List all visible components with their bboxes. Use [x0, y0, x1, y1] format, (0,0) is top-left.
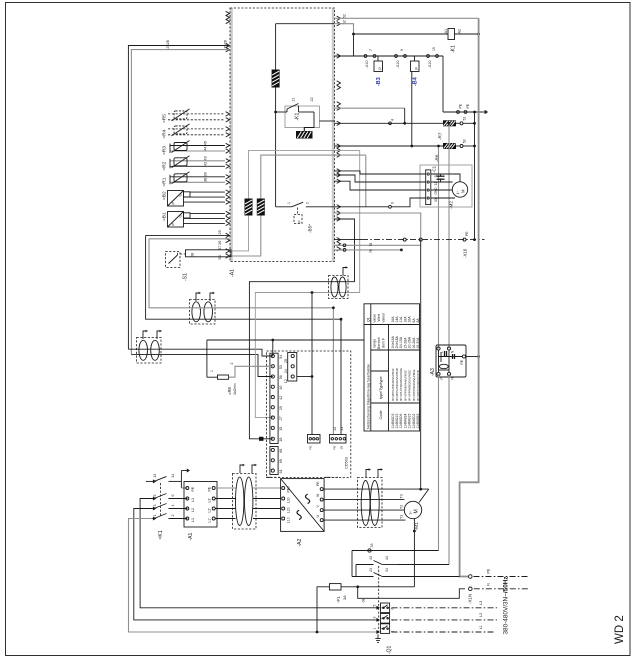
junction block on wire to terminal 18 [259, 437, 264, 441]
svg-text:=K1: =K1 [158, 530, 164, 539]
label -A3 [430, 368, 436, 376]
PE bus terminal -X1N:PE [469, 575, 473, 579]
svg-text:=R4: =R4 [162, 129, 168, 138]
svg-text:-C1: -C1 [432, 165, 437, 173]
svg-text:=R2: =R2 [162, 161, 168, 170]
svg-text:12: 12 [284, 379, 288, 383]
label -K1 (contact) [295, 113, 301, 121]
svg-text:13: 13 [153, 474, 157, 478]
svg-text:26: 26 [218, 241, 222, 245]
svg-text:380-480V/3N~/50Hz: 380-480V/3N~/50Hz [503, 576, 510, 634]
label -X10 (PE row) [463, 231, 470, 258]
capacitor -C1 [437, 174, 445, 182]
svg-text:value: value [373, 314, 377, 323]
wire F2 to strip terminal 54 [128, 349, 272, 356]
filter -A1 labels left [191, 486, 195, 522]
N wire jog to -X1N [358, 587, 465, 599]
terminal 54 riser [271, 339, 274, 356]
svg-text:25: 25 [218, 230, 222, 234]
wire 26 (top-left, black) [128, 46, 229, 350]
terminal -X1N:N [469, 587, 473, 591]
label -Q1 [387, 645, 393, 654]
mains L1 dash-dot [392, 625, 495, 632]
svg-text:25: 25 [224, 44, 228, 48]
svg-text:5: 5 [153, 495, 157, 497]
aux contact 43/44 wire [356, 561, 449, 577]
svg-text:42: 42 [204, 162, 208, 166]
fan feed wire 3 [334, 181, 426, 190]
svg-text:GND: GND [434, 187, 438, 195]
pressure switch -B3 [374, 56, 383, 72]
svg-text:39: 39 [204, 172, 208, 176]
svg-text:4: 4 [391, 119, 395, 121]
service switch -S1 contact [169, 252, 178, 264]
svg-text:PE0: PE0 [287, 486, 291, 493]
filter -A1 terminals [186, 487, 215, 521]
drive -A2 box [281, 479, 325, 532]
ferrite to drive wires [253, 488, 281, 519]
svg-text:44: 44 [204, 147, 208, 151]
A3 supply wire 1 (grey) [437, 145, 440, 349]
mains rating label 380-480V/3N~/50Hz [503, 576, 510, 634]
svg-text:52: 52 [343, 14, 347, 18]
svg-text:L2: L2 [191, 508, 195, 512]
control terminal strip upper (54..18) [270, 353, 283, 443]
Q1 pole wire arrowhead [376, 618, 380, 622]
PE bus (right side) [460, 18, 479, 576]
svg-text:27: 27 [279, 416, 283, 420]
svg-text:26: 26 [166, 40, 170, 44]
motor ferrite rings [361, 481, 379, 526]
thermistor -R3 symbol [172, 141, 190, 153]
label -A2 [297, 539, 303, 547]
svg-text:CD503: CD503 [345, 457, 349, 469]
filter -A1 box (power) [184, 482, 217, 528]
svg-text:53: 53 [279, 365, 283, 369]
svg-text:26: 26 [224, 40, 228, 44]
junction node (K1 branch) [274, 111, 277, 114]
svg-text:-A3: -A3 [430, 368, 436, 376]
fuse output wire [341, 585, 414, 588]
svg-text:33: 33 [370, 544, 374, 548]
svg-text:76: 76 [369, 249, 373, 253]
wire 52b to coil branch [334, 24, 354, 34]
motor -M1 [404, 501, 421, 518]
A3 supply wire 2 (grey) [448, 122, 451, 349]
svg-text:42: 42 [279, 396, 283, 400]
svg-text:24: 24 [284, 369, 288, 373]
svg-text:15: 15 [432, 47, 436, 51]
table header value [373, 312, 386, 323]
fan feed wire 2 [334, 175, 426, 182]
svg-text:=R8: =R8 [227, 387, 232, 395]
fuse selection table grid [364, 304, 420, 431]
internal wire to -K1 contact (vertical) [275, 24, 277, 207]
terminal -X10:9 circles [395, 55, 407, 58]
connector group area [0, 0, 1, 1]
svg-text:M: M [461, 189, 466, 193]
svg-text:L1: L1 [191, 518, 195, 522]
ferrite F5 ground arrow [343, 266, 348, 275]
relay coil -K1 [448, 29, 455, 40]
svg-text:T1: T1 [400, 515, 404, 519]
wire F1 to plug (black) [146, 235, 341, 434]
svg-text:3: 3 [153, 505, 157, 507]
svg-text:L3': L3' [208, 498, 212, 503]
resistor -R7 [443, 120, 456, 126]
svg-text:1: 1 [373, 628, 377, 630]
svg-text:=R1: =R1 [162, 177, 168, 186]
svg-text:68: 68 [279, 449, 283, 453]
table header Code [379, 410, 383, 419]
aux grey row b [334, 243, 403, 253]
svg-text:-X10: -X10 [365, 60, 369, 68]
junction (coil branch) [352, 33, 355, 36]
fan feed wire 1 [334, 171, 426, 174]
wire -X10:9 to R7 [334, 108, 406, 125]
table header Q1 [367, 317, 371, 322]
svg-text:PE: PE [459, 103, 463, 108]
svg-text:L3: L3 [191, 498, 195, 502]
fuse -F1 feed [316, 587, 330, 634]
svg-text:54: 54 [279, 355, 283, 359]
shield wire pair upper (black) [146, 234, 230, 236]
svg-text:P: P [440, 377, 444, 379]
aux net 33 wire [352, 544, 439, 553]
contactor -K1 terminal labels [153, 474, 175, 517]
relay contact -K1 wires [276, 104, 334, 132]
svg-text:23: 23 [369, 568, 373, 572]
svg-text:15: 15 [279, 427, 283, 431]
mains PE dash-dot [474, 568, 530, 576]
thermistor -R4 label [162, 129, 168, 138]
label 08 (N wire) [362, 599, 366, 603]
svg-text:-X10: -X10 [428, 60, 432, 68]
svg-text:-M1: -M1 [414, 522, 420, 531]
terminal labels 26/25 (top-left wires) [166, 40, 228, 49]
ferrite F1 shield-ground arrows [196, 292, 215, 301]
resistor -R6 [443, 143, 456, 149]
main switch -Q1 pole 2 [381, 614, 390, 624]
svg-text:PE: PE [460, 359, 464, 364]
svg-text:-A1: -A1 [188, 533, 194, 541]
svg-text:1: 1 [153, 515, 157, 517]
fan connector strip [426, 170, 431, 205]
svg-text:PE: PE [191, 486, 195, 491]
thermistor return net [249, 219, 354, 439]
shield clamp W1 [245, 199, 253, 216]
aux contact 23/24 wire [352, 573, 460, 577]
coil terminal labels A1/A2 [444, 29, 462, 34]
svg-text:52: 52 [463, 117, 467, 121]
drive -A2 converter symbol [281, 479, 325, 532]
thermistor -R1 symbol [172, 172, 190, 184]
thermistor -R5 label [162, 114, 168, 123]
svg-text:T3: T3 [400, 494, 404, 498]
table data column type [391, 368, 420, 401]
connector plug X (3-pin) [308, 435, 321, 444]
fuse -F1 body [330, 584, 342, 590]
svg-text:43: 43 [204, 156, 208, 160]
main switch -Q1 pole 3 [381, 624, 390, 634]
X10 PE riser [420, 240, 422, 490]
shield wire pair lower (grey) [149, 238, 230, 240]
label -K1 (coil) [451, 45, 457, 53]
enclosure dash-dot stubs [266, 476, 338, 478]
fuse -F1 labels [336, 595, 347, 603]
relay contact -K1 terminal labels [292, 97, 315, 101]
label -R7 [438, 132, 443, 140]
mains wire L3 (to K1) [129, 519, 378, 633]
svg-text:5: 5 [373, 605, 377, 607]
svg-text:6: 6 [171, 495, 175, 497]
sheet title WD 2 [614, 615, 626, 644]
svg-text:-Q1: -Q1 [387, 645, 393, 654]
terminal labels 55-58 (bottom-left group) [218, 246, 222, 260]
mains N dash-dot [474, 583, 529, 589]
internal wire stub (py23.7) [276, 23, 334, 25]
Q1 ground symbol [375, 635, 380, 643]
svg-text:08: 08 [362, 599, 366, 603]
aux riser [351, 551, 353, 577]
main switch -Q1 pole 1 [381, 603, 390, 613]
wire to X10 PE row [334, 213, 421, 240]
svg-text:7: 7 [369, 49, 373, 51]
shield clamp (below K1 contact) [296, 131, 313, 139]
junction (row309 plug) [332, 306, 335, 309]
svg-text:56: 56 [279, 375, 283, 379]
motor aux riser [413, 519, 416, 587]
svg-text:1N: 1N [340, 446, 344, 450]
terminal -X10:15 circles [427, 55, 439, 58]
Q1 pole wire arrowhead [376, 606, 380, 610]
service switch -S1 dashed box [166, 252, 181, 268]
svg-text:08: 08 [191, 253, 195, 257]
thermistor -R4 symbol [172, 124, 190, 136]
transducer -B1 wires [184, 213, 225, 223]
filter -A3 box [436, 345, 466, 377]
thermistor -R5 wires (dashed) [168, 114, 225, 120]
label -M1 [414, 522, 420, 531]
svg-text:0P=0PPP00200VLPX1B: 0P=0PPP00200VLPX1B [416, 370, 420, 401]
svg-text:-S1: -S1 [183, 273, 189, 281]
mains wire L1 (to K1) [140, 499, 377, 608]
svg-text:45: 45 [204, 141, 208, 145]
svg-text:78: 78 [369, 243, 373, 247]
svg-text:16-30A: 16-30A [416, 337, 420, 349]
svg-text:L30: L30 [287, 497, 291, 503]
thermistor -R1 label [162, 177, 168, 186]
label CD503 [345, 457, 349, 469]
svg-text:dom.F: dom.F [382, 337, 386, 348]
svg-text:=B2: =B2 [162, 191, 168, 200]
svg-text:L: L [440, 351, 444, 353]
svg-text:34: 34 [385, 568, 389, 572]
PE link wire (py112) [443, 56, 482, 113]
pressure switch -B4 [411, 56, 420, 72]
board left-edge terminal arrows (bottom group) [226, 233, 230, 258]
svg-text:U: U [179, 215, 183, 218]
heater wire (R6 row) [334, 145, 443, 147]
wire -S1 to connector (dashed) [180, 253, 186, 255]
connector bar (to -S1) [186, 250, 232, 257]
svg-text:Code: Code [379, 410, 383, 419]
svg-text:=R5: =R5 [162, 114, 168, 123]
svg-text:25: 25 [284, 359, 288, 363]
wire 25 (top-left, grey) [131, 50, 229, 355]
wire F2 to strip terminal 56 [131, 355, 272, 377]
ferrite sleeve F2 dashed box [137, 338, 162, 364]
pressure transducer -B2 label [162, 191, 168, 200]
thermistor -R1 wires [170, 175, 225, 185]
terminal circle 4 [389, 119, 395, 125]
svg-text:PE: PE [487, 568, 491, 573]
Q1 pole wire arrowhead [376, 630, 380, 634]
svg-text:43: 43 [369, 556, 373, 560]
PE labels (link row) [459, 103, 471, 108]
drive -A2 input terminals [282, 486, 291, 523]
svg-text:Q1: Q1 [367, 317, 371, 322]
filter -A1 labels right [208, 486, 212, 522]
power ferrite rings [236, 477, 253, 525]
wire numbers 45/44 (R3) [204, 141, 208, 151]
svg-text:WD 2: WD 2 [614, 615, 626, 644]
svg-text:L10: L10 [287, 517, 291, 523]
svg-text:1: 1 [210, 370, 214, 372]
svg-text:-F1: -F1 [336, 596, 341, 603]
controller board -A1 dashed outline [230, 8, 335, 262]
svg-text:3A: 3A [343, 595, 347, 600]
thermistor -R2 wires [170, 159, 225, 169]
svg-text:p: p [414, 67, 418, 69]
shield clamp W2 [257, 199, 265, 216]
svg-text:L1: L1 [479, 625, 483, 629]
-A3 output wire 1 (grey) [438, 374, 440, 551]
table title (time-lag fuse) [367, 364, 371, 429]
svg-text:38: 38 [204, 178, 208, 182]
PE riser with continuation arrow [181, 469, 190, 489]
svg-text:-M2: -M2 [449, 201, 454, 209]
thermistor -R5 symbol [172, 109, 190, 121]
svg-text:type/Typ/type: type/Typ/type [379, 376, 383, 399]
svg-text:Wert: Wert [377, 314, 381, 322]
svg-text:1: 1 [287, 202, 291, 204]
label -B3 [376, 77, 382, 86]
svg-text:9: 9 [400, 49, 404, 51]
R8 feed riser [207, 340, 218, 377]
thermistor -R2 symbol [172, 156, 190, 168]
wire F1 to plug (grey) [149, 239, 333, 435]
svg-text:-K1: -K1 [451, 45, 457, 53]
connector plug Y (4-pin) [330, 435, 347, 444]
svg-text:M: M [414, 509, 420, 513]
wire relay-12 to plug X [297, 293, 314, 435]
label -A1 (controller board) [230, 269, 236, 277]
svg-text:U: U [179, 194, 183, 197]
wire to X10 sensor row [353, 34, 355, 56]
svg-text:Bereich: Bereich [377, 337, 381, 349]
fan connector pin labels [434, 174, 438, 202]
svg-text:T2: T2 [400, 505, 404, 509]
svg-text:61: 61 [279, 469, 283, 473]
motor PE wire [324, 488, 429, 503]
terminal labels 52/52 (board right top) [343, 14, 347, 24]
fan feed wire 4 (via circle 6) [334, 198, 426, 208]
svg-text:L20: L20 [287, 507, 291, 513]
svg-text:29: 29 [279, 406, 283, 410]
svg-text:21: 21 [292, 97, 296, 101]
shield net W1 [231, 150, 360, 417]
R8 labels [210, 363, 237, 396]
control terminal strip lower (68,69,61) [270, 447, 283, 475]
svg-text:-A1: -A1 [230, 269, 236, 277]
svg-text:44: 44 [385, 556, 389, 560]
svg-text:-B4: -B4 [413, 77, 419, 86]
label -B4 [413, 77, 419, 86]
wire numbers 43/42 (R2) [204, 156, 208, 166]
svg-text:=B1: =B1 [162, 212, 168, 221]
contactor -K1 pole contacts [153, 494, 188, 521]
mains L3 dash-dot [392, 601, 498, 608]
thermistor -R2 label [162, 161, 168, 170]
relay contact -K1 frame [285, 106, 320, 128]
svg-text:valeur: valeur [382, 312, 386, 323]
labels -X10 (sensor row) [365, 47, 436, 68]
coil supply wire [354, 33, 481, 36]
PE link circles [457, 111, 467, 114]
svg-text:-X10: -X10 [463, 248, 468, 258]
label -A1 (filter) [188, 533, 194, 541]
svg-text:3~: 3~ [409, 510, 413, 514]
thermistor -R3 label [162, 146, 168, 155]
svg-text:40: 40 [279, 386, 283, 390]
X10 terminal circles [403, 238, 466, 241]
svg-text:PE: PE [466, 103, 470, 108]
-A3 internals [439, 351, 463, 373]
-A3 PE wire [466, 355, 480, 358]
svg-text:3: 3 [373, 617, 377, 619]
motor wire W [324, 499, 404, 501]
mains wire L2 (to K1) [134, 509, 378, 620]
svg-text:-X1N: -X1N [468, 594, 473, 604]
svg-text:PE: PE [465, 231, 469, 236]
svg-text:53: 53 [463, 139, 467, 143]
svg-text:6: 6 [391, 202, 395, 204]
-A3 terminal labels [440, 350, 464, 380]
thermistor -R4 wires (dashed) [168, 129, 225, 135]
filter to ferrite wires [215, 488, 235, 519]
wire numbers 39/38 (R1) [204, 172, 208, 182]
transducer -B2 wires [184, 192, 225, 202]
svg-text:4: 4 [171, 505, 175, 507]
svg-text:2: 2 [171, 515, 175, 517]
svg-text:22: 22 [310, 97, 314, 101]
svg-text:25: 25 [166, 44, 170, 48]
thermistor -R3 wires [170, 144, 225, 154]
Q1 linkage (dashed) [378, 566, 380, 635]
label 08 (connector bar) [191, 253, 195, 257]
ferrite sleeve F5 rings [329, 276, 349, 299]
PE row left segment [181, 487, 187, 489]
svg-text:L2: L2 [479, 613, 483, 617]
svg-text:p: p [297, 221, 301, 223]
pressure transducer -B2 symbol [168, 191, 191, 207]
thermistor loop wire (py340) [207, 339, 364, 341]
svg-text:8A: 8A [416, 318, 420, 323]
board right-edge terminal arrows [337, 16, 341, 251]
connector pin labels [309, 427, 345, 450]
svg-text:14: 14 [171, 474, 175, 478]
